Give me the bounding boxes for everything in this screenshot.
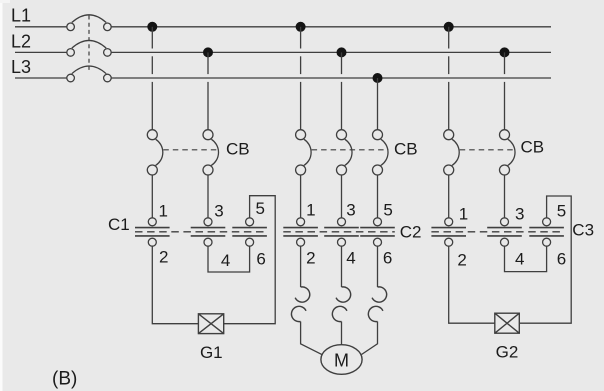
contactor C1 pole 2 (191, 218, 226, 246)
svg-text:(B): (B) (52, 369, 77, 390)
disconnect switch pole L2 (67, 40, 111, 56)
disconnect switch pole L1 (67, 15, 111, 31)
circuit breaker CB branch2 pole 2 (337, 130, 353, 175)
svg-text:5: 5 (557, 202, 566, 221)
wire L3 to CB branch2 (377, 78, 379, 130)
svg-text:1: 1 (306, 201, 315, 220)
wire CB to contactor branch3 x448 (448, 175, 450, 218)
brake coil G2 (495, 313, 520, 333)
svg-text:C1: C1 (108, 215, 130, 234)
circuit breaker CB branch1 linkage (163, 149, 219, 151)
circuit breaker CB branch1 pole 1 (147, 130, 163, 175)
disconnect switch linkage (88, 16, 90, 71)
svg-text:1: 1 (459, 204, 468, 223)
wire G1 to C1 pin5 loop (224, 196, 276, 324)
contactor C1 linkage (135, 231, 267, 233)
svg-text:2: 2 (306, 248, 315, 267)
wire CB to contactor branch2 x377 (377, 175, 379, 218)
svg-text:CB: CB (226, 140, 250, 159)
wire C2 pin2 to overload (300, 246, 302, 287)
svg-text:G2: G2 (496, 343, 519, 362)
contactor C3 linkage (431, 231, 564, 233)
wire C2 pin6 to overload (377, 246, 379, 287)
wire C3 pin4 to pin6 bridge (505, 246, 547, 271)
overload heater OL1 (291, 287, 309, 322)
circuit breaker CB branch3 linkage (460, 149, 516, 151)
wire L3 bus (15, 77, 551, 79)
svg-text:3: 3 (346, 201, 355, 220)
contactor C2 pole 1 (283, 218, 318, 246)
svg-text:3: 3 (515, 204, 524, 223)
svg-text:6: 6 (256, 250, 265, 269)
contactor C3 pole 1 (431, 218, 466, 246)
svg-text:3: 3 (214, 201, 223, 220)
wire C2 pin4 to overload (341, 246, 343, 287)
node junction L1/branch2 (296, 22, 306, 32)
contactor C3 pole 2 (487, 218, 522, 246)
wire CB to contactor branch1 x152 (151, 175, 153, 218)
wire L2 to CB branch3 (504, 52, 506, 129)
circuit breaker CB branch3 pole 1 (444, 130, 460, 175)
node junction L1/branch3 (444, 22, 454, 32)
svg-text:CB: CB (394, 140, 418, 159)
brake coil G1 (198, 314, 223, 334)
svg-text:M: M (334, 350, 349, 370)
svg-text:C2: C2 (400, 223, 422, 242)
contactor C1 pole 1 (135, 218, 170, 246)
wire C1 pin4 to pin6 bridge (208, 246, 250, 272)
wire CB to contactor branch3 x504 (504, 175, 506, 218)
wire L1 bus (15, 26, 551, 28)
svg-text:4: 4 (346, 248, 355, 267)
wire overload2 to motor (341, 322, 343, 345)
svg-text:4: 4 (515, 250, 524, 269)
svg-text:L2: L2 (11, 31, 31, 51)
svg-text:2: 2 (159, 248, 168, 267)
svg-text:1: 1 (159, 201, 168, 220)
wire G2 to C3 pin5 loop (519, 196, 571, 323)
contactor C2 pole 2 (324, 218, 359, 246)
wire L1 to CB branch3 (448, 27, 450, 130)
wire C1 pin2 to G1 (152, 246, 198, 324)
node junction L2/branch2 (337, 47, 347, 57)
svg-text:6: 6 (557, 250, 566, 269)
wire L2 to CB branch1 (207, 52, 209, 129)
wire overload1 to motor (301, 322, 323, 355)
wire overload3 to motor (362, 322, 378, 355)
contactor C1 pole 3 (232, 218, 267, 246)
svg-text:CB: CB (521, 137, 545, 156)
disconnect switch pole L3 (67, 66, 111, 82)
node junction L3/branch2 (373, 73, 383, 83)
svg-text:2: 2 (457, 251, 466, 270)
contactor C2 linkage (283, 231, 395, 233)
wire L2 to CB branch2 (341, 52, 343, 129)
svg-text:4: 4 (221, 251, 230, 270)
svg-text:G1: G1 (200, 343, 223, 362)
circuit breaker CB branch2 pole 1 (296, 130, 312, 175)
svg-text:L1: L1 (11, 6, 31, 26)
wire CB to contactor branch2 x300 (300, 175, 302, 218)
svg-text:5: 5 (383, 201, 392, 220)
contactor C2 pole 3 (360, 218, 395, 246)
wire L1 to CB branch2 (300, 27, 302, 130)
motor M (321, 345, 362, 375)
svg-text:6: 6 (383, 248, 392, 267)
circuit breaker CB branch3 pole 2 (500, 130, 516, 175)
circuit breaker CB branch2 linkage (312, 149, 389, 151)
wire CB to contactor branch1 x208 (207, 175, 209, 218)
contactor C3 pole 3 (529, 218, 564, 246)
circuit breaker CB branch2 pole 3 (373, 130, 389, 175)
overload heater OL2 (332, 287, 350, 322)
wire C3 pin2 to G2 (449, 246, 495, 323)
svg-text:C3: C3 (572, 220, 594, 239)
wire L1 to CB branch1 (151, 27, 153, 130)
svg-text:L3: L3 (11, 57, 31, 77)
node junction L2/branch1 (203, 47, 213, 57)
node junction L2/branch3 (500, 47, 510, 57)
node junction L1/branch1 (147, 22, 157, 32)
circuit breaker CB branch1 pole 2 (203, 130, 219, 175)
wire CB to contactor branch2 x341 (341, 175, 343, 218)
overload heater OL3 (368, 287, 386, 322)
wire L2 bus (15, 51, 551, 53)
svg-text:5: 5 (256, 199, 265, 218)
